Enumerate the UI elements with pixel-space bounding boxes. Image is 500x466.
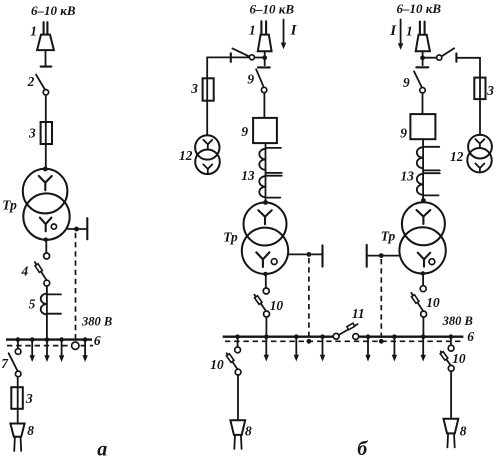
fuse 3 (feeder a)	[41, 122, 52, 144]
svg-text:б: б	[357, 438, 368, 460]
label 9 (disconnector b1)	[247, 72, 254, 87]
label 1 (cable box b2)	[406, 24, 413, 39]
reactor 13 (b1)	[259, 144, 281, 201]
disconnector 2	[36, 75, 49, 95]
svg-text:12: 12	[179, 148, 193, 163]
outgoing feeder arrow a1	[30, 341, 35, 362]
wire transformer b1 to breaker 10	[265, 276, 267, 289]
svg-text:а: а	[97, 439, 107, 461]
label a (diagram a)	[97, 439, 107, 461]
svg-text:6–10 кВ: 6–10 кВ	[31, 3, 76, 18]
node: reactor to transformer junction (b2)	[421, 198, 426, 203]
fuse 3 (outgoing feeder a)	[11, 387, 22, 409]
cable termination 8 (feeder b1)	[230, 420, 245, 449]
node: transformer a primary junction	[43, 167, 48, 172]
svg-text:9: 9	[241, 124, 248, 139]
wire VT branch vertical (b1)	[206, 57, 208, 135]
svg-text:13: 13	[401, 169, 415, 184]
neutral takeoff wire (a)	[68, 218, 87, 239]
label Tr (transformer b2)	[381, 228, 396, 243]
voltage transformer 12 (b1)	[195, 135, 220, 174]
label 380 V (b)	[442, 314, 473, 328]
dashed neutral conductor (a) vertical	[75, 233, 77, 342]
svg-text:10: 10	[210, 357, 224, 372]
cable termination 1 (feeder b2)	[416, 22, 430, 56]
svg-text:8: 8	[245, 424, 252, 439]
transformer Tr (b2) secondary winding, Y0	[399, 227, 445, 273]
label 3 (fuse a feeder)	[25, 391, 33, 406]
label 3 (fuse b1)	[190, 81, 198, 96]
label 6 (busbar a)	[94, 333, 101, 348]
svg-text:8: 8	[460, 424, 467, 439]
neutral takeoff wire (b2)	[367, 245, 400, 267]
dashed neutral busbar (a)	[7, 345, 93, 347]
label 6 (busbar b)	[467, 329, 474, 344]
label 5 (starter a)	[29, 297, 36, 312]
circuit breaker 4	[35, 253, 50, 286]
label b (diagram b)	[357, 438, 368, 460]
fuse 3 (VT branch b1)	[203, 78, 214, 100]
label I (b1)	[290, 23, 298, 39]
label 2 (disconnector a)	[27, 74, 35, 89]
svg-text:1: 1	[249, 23, 256, 38]
svg-text:3: 3	[190, 81, 198, 96]
busbar a junction dots	[16, 337, 88, 342]
svg-text:10: 10	[426, 295, 440, 310]
wire disconnector 2 to fuse 3	[45, 95, 47, 169]
node: junction of VT branch (b1)	[262, 55, 267, 60]
label 1 (cable box a)	[30, 23, 37, 38]
wire disconnector 9 to breaker box (b1)	[263, 93, 265, 118]
svg-text:Тр: Тр	[223, 229, 238, 244]
busbar 6 (a)	[6, 338, 92, 340]
label 8 (cable termination a feeder)	[27, 423, 34, 438]
svg-text:6–10 кВ: 6–10 кВ	[250, 2, 295, 17]
node: transformer a secondary bottom	[44, 237, 48, 241]
node: junction of VT branch (b2)	[420, 55, 425, 60]
current arrow I (b2)	[398, 20, 403, 50]
svg-text:1: 1	[30, 23, 37, 38]
svg-text:6: 6	[467, 329, 474, 344]
wire switch 7 to fuse	[17, 377, 19, 424]
voltage transformer 12 (b2)	[467, 135, 492, 173]
magnetic starter 5 coil	[41, 294, 61, 315]
disconnector 7	[9, 341, 21, 377]
svg-text:380 В: 380 В	[81, 315, 112, 329]
fuse 3 (VT branch b2)	[474, 78, 485, 100]
circuit breaker 10 (b2)	[411, 286, 426, 317]
cable termination 1 (feeder b1)	[258, 21, 272, 55]
outgoing feeder arrow b2-1	[365, 338, 370, 362]
node: reactor to transformer junction (b1)	[263, 200, 268, 205]
disconnector 9 (b1)	[256, 69, 267, 93]
svg-text:5: 5	[29, 297, 36, 312]
neutral takeoff wire (b1)	[288, 245, 323, 266]
label 12 (voltage transformer b1)	[179, 148, 193, 163]
svg-text:I: I	[290, 23, 298, 39]
svg-text:9: 9	[403, 75, 410, 90]
circuit breaker 10 (outgoing feeder b2)	[440, 338, 454, 371]
circuit breaker 10 (b1)	[254, 288, 269, 317]
label 3 (fuse a)	[28, 125, 36, 140]
label 9 (disconnector b2)	[403, 75, 410, 90]
busbar 6 (b) left section	[223, 336, 334, 338]
label I (b2)	[389, 23, 397, 39]
svg-text:6–10 кВ: 6–10 кВ	[397, 1, 442, 16]
node: transformer b2 bottom	[421, 271, 425, 275]
label 13 (reactor b1)	[241, 168, 255, 183]
svg-text:380 В: 380 В	[442, 314, 473, 328]
outgoing feeder arrow b1-3	[320, 338, 325, 362]
svg-text:3: 3	[25, 391, 33, 406]
label Tr (transformer a)	[2, 197, 17, 212]
label 6-10 kV (feeder a)	[31, 3, 76, 18]
earthing tee below junction (b1)	[258, 60, 270, 67]
wire VT branch horizontal (b1)	[207, 56, 249, 58]
label 380 V (a)	[81, 315, 112, 329]
label 13 (reactor b2)	[401, 169, 415, 184]
label 10 (feeder breaker b1)	[210, 357, 224, 372]
label 3 (fuse b2)	[486, 83, 494, 98]
wire breaker 10 to busbar (b1)	[265, 317, 267, 338]
wire transformer b2 to breaker 10	[422, 275, 424, 286]
node circle: neutral tap on dashed line (a)	[72, 342, 79, 349]
circuit breaker box 9 (b2)	[410, 114, 435, 139]
svg-text:10: 10	[270, 298, 284, 313]
label 8 (cable termination feeder b2)	[460, 424, 467, 439]
label 8 (cable termination feeder b1)	[245, 424, 252, 439]
wire feeder breaker b2 to cable box	[450, 371, 452, 419]
earthing tee below junction (b2)	[416, 60, 428, 67]
current arrow I (b1)	[281, 20, 286, 50]
svg-text:1: 1	[406, 24, 413, 39]
cable termination 8 (feeder b2)	[444, 419, 459, 448]
wire VT branch horizontal+vertical (b2)	[456, 58, 480, 135]
svg-text:3: 3	[486, 83, 494, 98]
circuit breaker 10 (outgoing feeder b1)	[226, 338, 241, 375]
wire disconnector 9 to breaker box (b2)	[422, 93, 424, 114]
label 4 (contactor a)	[21, 263, 29, 278]
label 12 (voltage transformer b2)	[450, 149, 464, 164]
label 6-10 kV (feeder b1)	[250, 2, 295, 17]
label 6-10 kV (feeder b2)	[397, 1, 442, 16]
section circuit breaker 11	[333, 323, 358, 339]
disconnector of VT branch (b1)	[231, 48, 262, 62]
svg-text:12: 12	[450, 149, 464, 164]
label 7 (switch a feeder)	[1, 356, 9, 371]
wire feeder breaker b1 to cable box	[237, 375, 239, 420]
label 9 (breaker box b2)	[400, 126, 407, 141]
dashed neutral conductor (b1) vertical	[308, 258, 310, 340]
outgoing feeder arrow a4	[82, 341, 87, 362]
label 10 (breaker b2)	[426, 295, 440, 310]
svg-text:10: 10	[452, 351, 466, 366]
node: neutral tie dot (b2)	[379, 339, 384, 344]
reactor 13 (b2)	[417, 139, 440, 198]
svg-text:13: 13	[241, 168, 255, 183]
disconnector of VT branch (b2)	[425, 48, 456, 61]
svg-text:9: 9	[247, 72, 254, 87]
svg-text:9: 9	[400, 126, 407, 141]
node: neutral tie dot (b1)	[307, 339, 312, 344]
svg-text:Тр: Тр	[381, 228, 396, 243]
svg-text:11: 11	[352, 306, 365, 321]
label 9 (breaker box b1)	[241, 124, 248, 139]
wire transformer a to contactor 4	[45, 242, 47, 253]
busbar 6 (b) right section	[359, 336, 464, 338]
svg-text:4: 4	[21, 263, 29, 278]
label 10 (feeder breaker b2)	[452, 351, 466, 366]
wire breaker 4 through starter 5 to busbar	[46, 286, 48, 339]
busbar b junction dots	[235, 334, 453, 339]
label 11 (section switch)	[352, 306, 365, 321]
transformer Tr (b1) primary winding, Y	[244, 203, 287, 246]
cable termination 8 (feeder a)	[10, 424, 24, 451]
svg-text:8: 8	[27, 423, 34, 438]
transformer Tr (b2) primary winding, Y	[402, 202, 445, 245]
node: transformer b1 bottom	[263, 272, 267, 276]
outgoing feeder arrow b1-1	[264, 338, 269, 362]
svg-text:2: 2	[27, 74, 35, 89]
dashed neutral busbar (b)	[225, 340, 463, 342]
svg-text:7: 7	[1, 356, 9, 371]
outgoing feeder arrow a2	[44, 341, 49, 362]
outgoing feeder arrow b2-2	[392, 338, 397, 362]
outgoing feeder arrow a3	[59, 341, 64, 362]
svg-text:Тр: Тр	[2, 197, 17, 212]
label Tr (transformer b1)	[223, 229, 238, 244]
svg-text:6: 6	[94, 333, 101, 348]
label 10 (breaker b1)	[270, 298, 284, 313]
svg-text:I: I	[389, 23, 397, 39]
dashed neutral conductor (b2) vertical	[380, 259, 382, 340]
circuit breaker box 9 (b1)	[253, 118, 277, 143]
label 1 (cable box b1)	[249, 23, 256, 38]
disconnector 9 (b2)	[414, 71, 425, 93]
svg-text:3: 3	[28, 125, 36, 140]
transformer Tr (a) secondary winding, Y0	[23, 193, 69, 239]
transformer Tr (a) primary winding, Y	[23, 169, 68, 214]
cable termination 1 (feeder a)	[37, 22, 54, 66]
transformer Tr (b1) secondary winding, Y0	[242, 228, 288, 274]
outgoing feeder arrow b1-2	[294, 338, 299, 362]
wire breaker 10 to busbar (b2)	[422, 317, 424, 336]
outgoing feeder arrow b2-3	[421, 338, 426, 362]
